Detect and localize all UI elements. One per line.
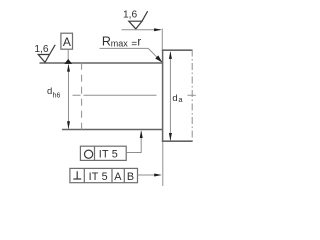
svg-text:d: d xyxy=(47,86,52,97)
shaft top outline line xyxy=(40,62,164,64)
extension line below flange face xyxy=(162,142,164,186)
perpendicularity frame divider 2 xyxy=(111,168,113,182)
shaft bottom outline line xyxy=(62,129,163,131)
extension line above flange face xyxy=(161,29,163,50)
circularity leader arrowhead xyxy=(140,130,143,138)
perpendicularity frame divider 1 xyxy=(83,168,85,182)
flange right broken edge dash-dot line xyxy=(191,50,193,143)
svg-text:r: r xyxy=(137,37,141,49)
roughness right leader line xyxy=(122,29,161,31)
circularity tolerance frame xyxy=(80,146,126,160)
svg-text:R: R xyxy=(102,34,111,48)
perpendicularity frame divider 3 xyxy=(123,168,125,182)
Rmax leader underline and bend xyxy=(100,48,162,61)
d_a top arrowhead xyxy=(169,51,172,59)
svg-text:IT 5: IT 5 xyxy=(99,149,118,161)
svg-text:1,6: 1,6 xyxy=(34,44,48,55)
svg-text:IT 5: IT 5 xyxy=(89,171,108,183)
svg-text:A: A xyxy=(114,171,122,183)
bearing seat hidden dashed line xyxy=(81,63,83,130)
svg-text:A: A xyxy=(63,35,71,49)
d_h6 bottom arrowhead xyxy=(67,121,70,129)
dimension line d_h6 xyxy=(68,65,70,129)
datum A leader line xyxy=(67,49,69,60)
flange (shoulder) left face line xyxy=(162,50,164,142)
datum A filled triangle xyxy=(64,59,72,64)
roughness right leader arrowhead xyxy=(154,28,162,31)
perpendicularity leader line xyxy=(138,174,160,176)
perpendicularity tolerance frame xyxy=(70,168,138,182)
horizontal centerline (dash-dot) xyxy=(73,94,196,96)
flange bottom line xyxy=(162,140,193,142)
perpendicularity symbol xyxy=(73,171,81,179)
circularity frame divider xyxy=(94,146,96,160)
d_a bottom arrowhead xyxy=(169,133,172,141)
surface roughness symbol right (1,6) xyxy=(129,11,148,29)
Rmax leader arrowhead xyxy=(155,55,162,62)
svg-text:B: B xyxy=(127,171,134,183)
dimension line d_a xyxy=(169,52,171,141)
svg-text:h6: h6 xyxy=(53,93,61,100)
datum A box xyxy=(61,33,73,49)
circularity leader line xyxy=(126,132,141,153)
flange top line xyxy=(162,49,193,51)
circularity circle symbol xyxy=(85,150,93,158)
svg-text:d: d xyxy=(172,93,177,104)
perpendicularity leader arrowhead xyxy=(154,174,162,177)
surface roughness symbol left (1,6) xyxy=(38,45,55,63)
svg-text:1,6: 1,6 xyxy=(123,10,137,21)
d_h6 top arrowhead xyxy=(67,64,70,71)
svg-text:max: max xyxy=(111,39,129,49)
